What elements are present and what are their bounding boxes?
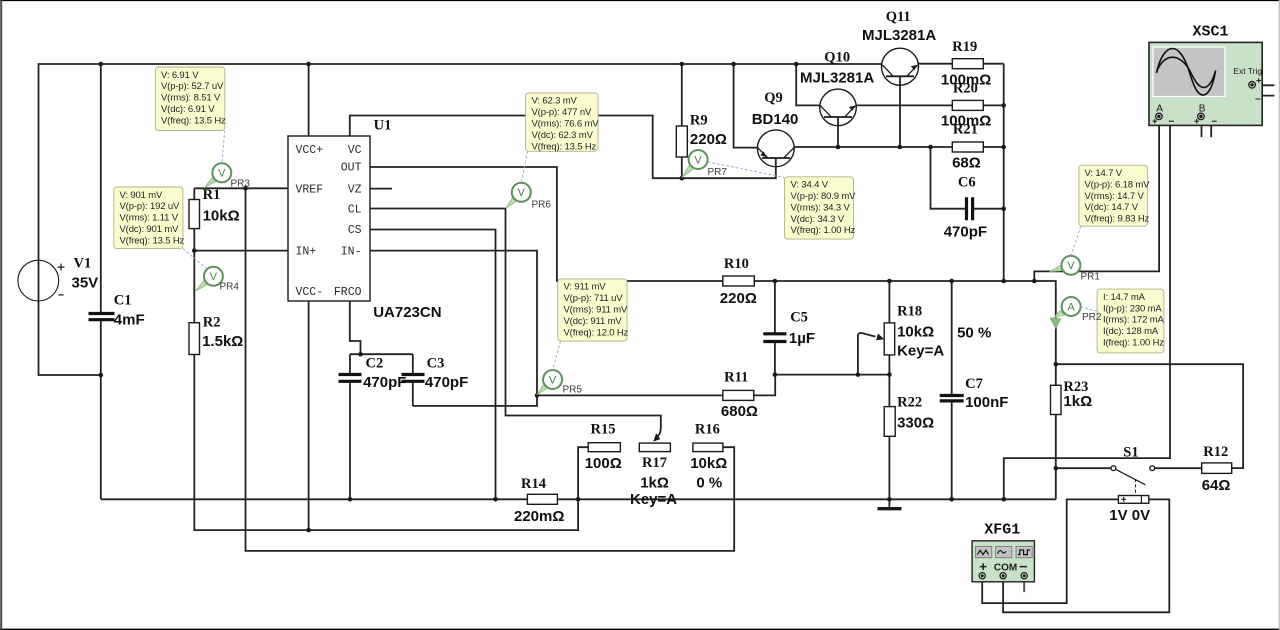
svg-text:A: A <box>1067 301 1075 313</box>
wire VC from U1 to R9 bottom and Q9 base <box>350 116 776 179</box>
junction dots emitter resistor vertical <box>1001 103 1006 283</box>
wire S1 right pole to R12 <box>1155 467 1202 469</box>
svg-text:470pF: 470pF <box>363 374 406 391</box>
wire C3 bottom lead <box>412 381 414 406</box>
label R12 <box>1202 444 1231 494</box>
wire R18 top lead <box>888 281 890 323</box>
svg-text:C1: C1 <box>114 293 132 309</box>
svg-text:470pF: 470pF <box>425 374 468 391</box>
op-amp regulator U1 <box>288 136 392 301</box>
svg-text:I(freq): 1.00 Hz: I(freq): 1.00 Hz <box>1103 338 1164 349</box>
wire output jog to oscilloscope input A <box>1034 119 1159 281</box>
transistor Q10 <box>820 89 857 126</box>
switch S1 <box>1111 466 1155 496</box>
svg-text:220Ω: 220Ω <box>690 131 727 148</box>
resistor R22 <box>884 407 895 437</box>
capacitor C3 <box>402 375 425 382</box>
resistor R16 <box>693 443 723 452</box>
resistor R15 <box>588 443 620 452</box>
label R2 <box>202 315 243 351</box>
probe PR7 <box>682 150 708 178</box>
wire R1 bottom to R2 top <box>193 229 195 323</box>
probe PR3 <box>204 163 231 188</box>
svg-text:V(dc): 62.3 mV: V(dc): 62.3 mV <box>532 130 594 141</box>
svg-text:100Ω: 100Ω <box>585 455 622 472</box>
wire IN+ to R1/R2 junction <box>194 250 288 252</box>
page border right <box>1278 0 1280 630</box>
wire C1 bottom lead to ground bus <box>100 320 102 500</box>
wire C5 top lead <box>774 281 776 334</box>
svg-text:V(dc): 14.7 V: V(dc): 14.7 V <box>1085 202 1139 213</box>
wire VREF net down and around to R16 right <box>246 188 735 551</box>
svg-text:Key=A: Key=A <box>630 491 677 508</box>
junction dot V1/C1 node <box>99 373 104 378</box>
svg-text:OUT: OUT <box>341 162 362 175</box>
svg-text:V: 901 mV: V: 901 mV <box>120 190 163 201</box>
svg-text:COM: COM <box>994 562 1017 573</box>
svg-text:V(freq): 1.00 Hz: V(freq): 1.00 Hz <box>791 225 856 236</box>
readout box PR1 <box>1079 165 1150 226</box>
leader line PR3 to readout <box>222 131 225 164</box>
svg-text:CL: CL <box>348 203 362 216</box>
wire XFG1 minus stub <box>1023 579 1025 592</box>
wire R19/R20/C6 right vertical to output rail <box>1003 64 1005 281</box>
svg-text:V(rms): 911 mV: V(rms): 911 mV <box>564 305 629 316</box>
svg-text:VCC+: VCC+ <box>296 144 324 157</box>
svg-text:CS: CS <box>348 224 362 237</box>
svg-text:Q10: Q10 <box>824 49 850 65</box>
resistor R14 <box>527 494 557 504</box>
leader line PR7 to readout <box>707 162 784 178</box>
svg-text:R12: R12 <box>1203 444 1228 460</box>
svg-text:I: 14.7 mA: I: 14.7 mA <box>1103 292 1146 303</box>
wire battery right to XFG1 COM <box>1003 499 1169 612</box>
label Q10 <box>800 49 874 86</box>
label V1 <box>72 256 99 292</box>
svg-text:V(p-p): 477 nV: V(p-p): 477 nV <box>532 107 592 118</box>
svg-text:C5: C5 <box>790 310 808 326</box>
readout box PR6 <box>526 93 600 152</box>
junction dot PR5 / IN- net <box>535 393 540 398</box>
junction dots output rail <box>773 279 1037 284</box>
label U1 <box>373 117 441 321</box>
svg-text:PR3: PR3 <box>231 179 251 190</box>
label R1 <box>203 187 240 225</box>
resistor R10 <box>723 276 755 286</box>
resistor R9 <box>676 126 687 157</box>
svg-text:C7: C7 <box>965 376 983 392</box>
svg-text:R14: R14 <box>521 476 546 492</box>
svg-text:220mΩ: 220mΩ <box>514 508 564 525</box>
wire VCC- lead from U1 <box>308 301 310 530</box>
svg-text:R1: R1 <box>203 187 221 203</box>
wire C2-C3 top horizontal <box>350 353 413 355</box>
svg-text:V(p-p): 711 uV: V(p-p): 711 uV <box>564 293 624 304</box>
svg-text:R15: R15 <box>591 422 616 438</box>
resistor R11 <box>723 390 754 400</box>
resistor R1 <box>189 200 200 229</box>
probe PR4 <box>195 267 223 291</box>
svg-text:V: 34.4 V: V: 34.4 V <box>791 180 829 191</box>
svg-text:Key=A: Key=A <box>897 343 944 360</box>
svg-text:C6: C6 <box>958 174 976 190</box>
readout box PR3 <box>155 67 226 131</box>
svg-text:V(dc): 34.3 V: V(dc): 34.3 V <box>791 214 845 225</box>
leader line PR6 to readout <box>521 151 527 183</box>
svg-text:V: 911 mV: V: 911 mV <box>564 282 607 293</box>
wire R9 bottom lead <box>681 157 683 178</box>
junction dot VCC- / R2 wire <box>306 528 311 533</box>
svg-text:Ext Trig: Ext Trig <box>1233 66 1262 76</box>
capacitor C7 <box>940 396 964 401</box>
svg-text:FRCO: FRCO <box>334 286 362 299</box>
svg-text:PR2: PR2 <box>1082 312 1102 323</box>
resistor R20 <box>952 100 983 110</box>
label R14 <box>514 476 564 525</box>
junction dot R9 bottom / VC <box>680 176 685 181</box>
svg-text:64Ω: 64Ω <box>1202 477 1231 494</box>
svg-text:50 %: 50 % <box>957 324 991 341</box>
wire Q11 emitter to R19 <box>919 63 953 65</box>
leader line PR2 to readout <box>1081 307 1098 311</box>
svg-text:Q9: Q9 <box>764 90 783 106</box>
svg-text:PR4: PR4 <box>220 282 240 293</box>
svg-text:V: 62.3 mV: V: 62.3 mV <box>532 96 578 107</box>
wire Q9-Q10-Q11 base rail to R21 <box>794 146 1004 148</box>
label R15 <box>585 422 622 473</box>
wire ext trig plus stub <box>1256 84 1275 86</box>
svg-text:68Ω: 68Ω <box>952 154 981 171</box>
svg-text:UA723CN: UA723CN <box>373 304 441 321</box>
label R23 <box>1063 379 1092 410</box>
readout box PR7 <box>785 177 857 239</box>
svg-text:I(rms): 172 mA: I(rms): 172 mA <box>1103 315 1165 326</box>
label R9 <box>690 113 727 149</box>
label Q11 <box>862 9 936 44</box>
svg-text:U1: U1 <box>374 117 392 133</box>
junction dot FRCO / C2-C3 <box>358 352 363 357</box>
wire C7 bottom lead <box>951 401 953 499</box>
svg-text:470pF: 470pF <box>944 223 987 240</box>
svg-text:10kΩ: 10kΩ <box>690 455 727 472</box>
wire Q10 collector lead to rail <box>796 64 820 105</box>
svg-text:V: V <box>549 374 557 386</box>
page border left <box>0 0 2 630</box>
oscilloscope XSC1 <box>1149 23 1262 125</box>
svg-text:35V: 35V <box>72 275 99 292</box>
page border top <box>0 0 1280 2</box>
svg-text:IN+: IN+ <box>296 245 317 258</box>
readout box PR2 <box>1097 289 1164 353</box>
wire R1 top lead <box>193 188 195 199</box>
svg-text:XSC1: XSC1 <box>1193 23 1229 40</box>
label C6 <box>944 174 987 240</box>
wire ext trig minus stub <box>1252 88 1274 95</box>
label R16 <box>690 422 727 492</box>
junction dot VREF/R1 <box>243 186 248 191</box>
svg-text:BD140: BD140 <box>752 111 799 128</box>
junction dots ground bus <box>348 497 1006 502</box>
svg-text:I(p-p): 230 mA: I(p-p): 230 mA <box>1103 303 1162 314</box>
wire Q10 base lead <box>837 126 839 147</box>
svg-text:R11: R11 <box>724 370 748 386</box>
svg-text:C2: C2 <box>366 356 384 372</box>
svg-text:V: V <box>210 271 218 283</box>
svg-text:V(freq): 13.5 Hz: V(freq): 13.5 Hz <box>120 235 185 246</box>
svg-text:R21: R21 <box>953 122 978 138</box>
wire VCC+ lead from rail to U1 <box>308 64 310 136</box>
svg-text:V(rms): 14.7 V: V(rms): 14.7 V <box>1085 191 1145 202</box>
svg-text:R10: R10 <box>724 256 749 272</box>
svg-text:R17: R17 <box>642 455 667 471</box>
label Q9 <box>752 90 799 128</box>
svg-text:330Ω: 330Ω <box>897 414 934 431</box>
capacitor C1 <box>89 314 115 320</box>
wire C2 bottom lead to ground bus <box>349 381 351 499</box>
svg-text:I(dc): 128 mA: I(dc): 128 mA <box>1103 326 1159 337</box>
wire oscilloscope B plus stub <box>1201 119 1203 137</box>
wire R2 bottom and VCC- net to R15 left <box>194 355 588 531</box>
svg-text:V1: V1 <box>74 256 92 272</box>
page border bottom <box>0 628 1280 630</box>
svg-text:R9: R9 <box>690 113 708 129</box>
wire ground bus <box>101 498 1056 500</box>
svg-text:PR5: PR5 <box>563 385 583 396</box>
svg-text:R16: R16 <box>695 422 720 438</box>
svg-text:V(freq): 9.83 Hz: V(freq): 9.83 Hz <box>1085 214 1150 225</box>
svg-text:V(freq): 12.0 Hz: V(freq): 12.0 Hz <box>564 327 629 338</box>
svg-text:V(p-p): 6.18 mV: V(p-p): 6.18 mV <box>1085 179 1151 190</box>
wire S1 left pole <box>1056 467 1111 469</box>
label R10 <box>720 256 757 307</box>
label R17 <box>630 455 677 508</box>
svg-text:R20: R20 <box>953 81 978 97</box>
wire R19 right lead <box>983 63 1003 65</box>
label R19 <box>941 39 991 89</box>
svg-text:V: 14.7 V: V: 14.7 V <box>1085 168 1123 179</box>
svg-text:R18: R18 <box>897 304 922 320</box>
wire CS from U1 to ground bus <box>370 230 496 500</box>
svg-text:10kΩ: 10kΩ <box>203 208 240 225</box>
capacitor C5 <box>763 334 786 342</box>
wire Q9 emitter lead to rail <box>734 64 758 148</box>
svg-text:R19: R19 <box>952 39 977 55</box>
probe PR1 <box>1050 256 1081 275</box>
label R20 <box>941 81 991 130</box>
arrowhead R18 wiper <box>876 334 884 341</box>
ground <box>878 507 902 510</box>
probe PR6 <box>506 183 531 208</box>
junction dot R1/R2/IN+ <box>192 248 197 253</box>
svg-text:1kΩ: 1kΩ <box>1063 393 1092 410</box>
svg-text:680Ω: 680Ω <box>721 403 758 420</box>
label C2 <box>363 356 406 391</box>
svg-text:V(rms): 1.11 V: V(rms): 1.11 V <box>120 213 179 224</box>
svg-text:V: V <box>218 168 226 180</box>
leader line PR5 to readout <box>553 341 561 370</box>
svg-text:220Ω: 220Ω <box>720 290 757 307</box>
potentiometer R18 <box>884 323 895 355</box>
svg-text:V(p-p): 192 uV: V(p-p): 192 uV <box>120 201 180 212</box>
svg-text:PR1: PR1 <box>1081 272 1101 283</box>
junction dots wiper net <box>773 372 892 377</box>
resistor R23 <box>1051 385 1062 414</box>
wire VREF to R1 top <box>194 187 288 189</box>
svg-text:V(dc): 901 mV: V(dc): 901 mV <box>120 224 180 235</box>
label R11 <box>721 370 758 421</box>
svg-text:VC: VC <box>348 144 362 157</box>
arrowhead CL wiper onto R17 <box>653 433 660 441</box>
junction dot R23 / S1 branch <box>1054 466 1059 471</box>
probe PR2 current with arrow <box>1050 297 1080 328</box>
label C1 <box>114 293 145 329</box>
svg-text:VZ: VZ <box>348 183 362 196</box>
wire C5 bottom lead <box>774 342 776 375</box>
wire R23 node to R12 right <box>1056 364 1243 468</box>
wire Q11 base lead <box>899 85 901 147</box>
wire C1 top lead <box>100 64 102 314</box>
svg-text:V(freq): 13.5 Hz: V(freq): 13.5 Hz <box>161 115 226 126</box>
readout box PR4 <box>114 187 185 249</box>
label R21 <box>952 122 981 172</box>
svg-text:MJL3281A: MJL3281A <box>862 27 936 44</box>
readout box PR5 <box>558 279 629 341</box>
wire C6 left lead <box>931 147 967 209</box>
svg-text:V(rms): 8.51 V: V(rms): 8.51 V <box>161 93 221 104</box>
svg-text:0 %: 0 % <box>696 474 722 491</box>
leader line PR1 to readout <box>1071 226 1081 256</box>
wire oscilloscope B minus stub <box>1205 116 1212 137</box>
leader line PR4 to readout <box>183 249 206 269</box>
svg-text:IN-: IN- <box>341 245 362 258</box>
svg-text:MJL3281A: MJL3281A <box>800 70 874 87</box>
label C7 <box>965 376 1008 411</box>
svg-text:VCC-: VCC- <box>296 286 324 299</box>
potentiometer R17 <box>639 443 670 452</box>
wire R20 right lead <box>983 104 1003 106</box>
svg-text:VREF: VREF <box>296 183 324 196</box>
svg-text:4mF: 4mF <box>114 312 145 329</box>
svg-text:V(rms): 34.3 V: V(rms): 34.3 V <box>791 202 851 213</box>
svg-text:1kΩ: 1kΩ <box>640 474 669 491</box>
svg-text:V(dc): 6.91 V: V(dc): 6.91 V <box>161 104 215 115</box>
svg-text:Q11: Q11 <box>886 9 911 25</box>
svg-text:V(dc): 911 mV: V(dc): 911 mV <box>564 316 623 327</box>
wire R22 bottom lead to ground bus <box>888 436 890 499</box>
svg-text:V(rms): 76.6 mV: V(rms): 76.6 mV <box>532 119 600 130</box>
junction dot R23 top / R12 net <box>1054 362 1059 367</box>
wire OUT from U1 down to output rail to R23 corner <box>370 167 1056 499</box>
wire R18 bottom to R22 top <box>888 355 890 407</box>
battery 1V 0V <box>1118 496 1148 504</box>
wire oscilloscope A minus to ground bus <box>1004 116 1170 499</box>
resistor R19 <box>952 59 983 69</box>
probe PR5 <box>537 370 562 395</box>
wire ground symbol stub <box>888 499 890 507</box>
svg-text:V: 6.91 V: V: 6.91 V <box>161 70 199 81</box>
transistor Q9 <box>757 130 794 167</box>
label R18 <box>897 304 944 360</box>
wire C2 top lead <box>349 354 351 374</box>
junction dots base rail <box>836 145 1006 150</box>
svg-text:XFG1: XFG1 <box>984 522 1020 539</box>
svg-text:V: V <box>518 187 526 199</box>
svg-text:PR7: PR7 <box>708 167 728 178</box>
wire R18 wiper arm <box>858 333 876 375</box>
svg-text:PR6: PR6 <box>532 200 552 211</box>
wire C3 top lead <box>412 354 414 374</box>
label R22 <box>897 395 934 432</box>
svg-text:1.5kΩ: 1.5kΩ <box>202 333 243 350</box>
svg-text:R2: R2 <box>203 315 221 331</box>
transistor Q11 <box>882 48 919 85</box>
wire battery left to XFG1 plus <box>982 499 1118 603</box>
svg-text:V: V <box>694 154 702 166</box>
capacitor C6 <box>967 197 973 220</box>
svg-text:1µF: 1µF <box>789 330 815 347</box>
wire C7 top lead <box>951 281 953 396</box>
wire FRCO jog to C2/C3 top <box>350 301 361 354</box>
svg-text:S1: S1 <box>1123 445 1138 461</box>
junction dots 35V rail <box>99 62 799 67</box>
label C3 <box>425 356 468 391</box>
svg-text:C3: C3 <box>427 356 445 372</box>
svg-text:1V 0V: 1V 0V <box>1109 507 1150 524</box>
wire IN- node through R11 to C5 bottom <box>537 375 775 396</box>
wire CL from U1 to R17 wiper <box>370 209 661 439</box>
wire V1 negative to C1 bottom node <box>39 301 101 375</box>
wire Q10 emitter to R20 <box>856 104 952 106</box>
svg-text:V(p-p): 52.7 uV: V(p-p): 52.7 uV <box>161 81 224 92</box>
resistor R12 <box>1202 463 1232 474</box>
function generator XFG1 <box>972 522 1034 582</box>
capacitor C2 <box>339 375 362 382</box>
resistor R21 <box>952 142 983 152</box>
svg-text:V: V <box>1067 260 1075 272</box>
source V1 <box>18 260 65 301</box>
wire IN- from U1 to C3 bottom <box>370 251 537 406</box>
wire wiper net C5 bottom to R18 bottom <box>775 374 890 376</box>
label C5 <box>789 310 815 348</box>
resistor R2 <box>189 323 200 355</box>
wire 35V rail: V1 top to Q11 collector <box>39 64 882 260</box>
svg-text:R22: R22 <box>897 395 922 411</box>
svg-text:V(freq): 13.5 Hz: V(freq): 13.5 Hz <box>532 141 597 152</box>
wire C6 right lead <box>973 208 1004 210</box>
wire R9 top lead <box>681 64 683 126</box>
svg-text:10kΩ: 10kΩ <box>897 323 934 340</box>
svg-text:V(p-p): 80.9 mV: V(p-p): 80.9 mV <box>791 191 857 202</box>
svg-text:100nF: 100nF <box>965 394 1008 411</box>
